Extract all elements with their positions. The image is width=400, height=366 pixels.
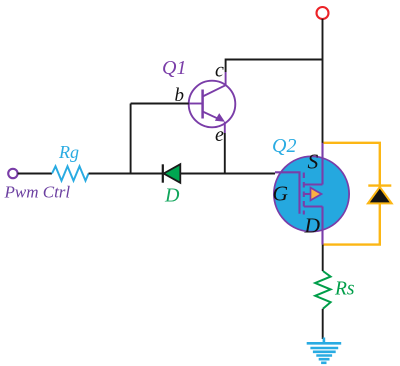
source stub [304,183,323,185]
arrow inside mosfet [311,188,322,201]
svg-text:D: D [304,214,321,238]
svg-text:Rs: Rs [334,279,355,300]
gate lead [275,172,300,213]
wire: top horizontal from Q1 collector to main vertical [226,60,323,73]
svg-text:e: e [215,124,224,146]
svg-text:Q2: Q2 [272,135,296,157]
wire: Rs to ground [322,309,324,339]
svg-text:c: c [215,60,224,82]
wire: diode to gate [180,173,275,175]
drain lead [321,207,323,245]
wire: emitter down to gate line [224,133,226,174]
resistor Rs (green, vertical) [315,271,330,309]
svg-text:S: S [308,150,319,174]
drain stub [304,205,323,207]
diode D (green, pointing left) [162,164,164,182]
transistor Q1 (PNP, purple) [189,72,236,133]
wire: terminal to Rg [18,173,52,175]
svg-text:D: D [164,185,180,207]
ground (cyan earth symbol) [307,338,342,363]
terminal Pwm Ctrl (purple) [8,169,17,178]
wire: drain to Rs [322,245,324,271]
source lead [321,143,323,185]
svg-text:Rg: Rg [58,142,79,162]
yellow branch wire (body-diode loop) [324,143,380,245]
wire: Rg to diode [89,173,163,175]
body diode (black triangle, yellow bar) [368,184,391,186]
channel dashed line [303,173,305,215]
mosfet Q2 (blue circle) [274,156,349,231]
svg-text:G: G [273,182,289,206]
wire: left vertical down to gate line [130,104,132,174]
resistor Rg (cyan) [52,166,89,180]
svg-text:Pwm Ctrl: Pwm Ctrl [4,183,71,202]
wire: base lead to left [131,103,189,105]
wire: main vertical from V+ terminal down to yellow top rail [322,19,324,143]
svg-text:Q1: Q1 [162,57,186,79]
terminal V+ (red) [317,7,329,19]
body stub with arrow [304,193,311,195]
